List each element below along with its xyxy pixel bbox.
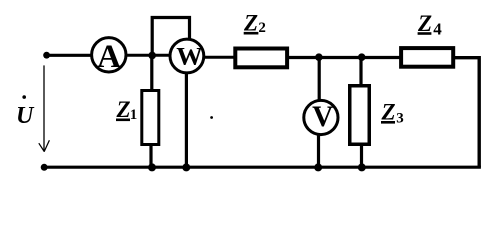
- label Z3: [381, 99, 404, 126]
- label U (phasor): [16, 95, 35, 129]
- wire: wattmeter to Z2: [203, 56, 236, 59]
- svg-text:Z: Z: [381, 99, 396, 124]
- wire: ammeter to wattmeter: [125, 54, 171, 57]
- wire: wattmeter current return to bottom: [185, 73, 188, 167]
- source arrow for U: [39, 65, 50, 151]
- resistor Z3: [350, 86, 370, 145]
- svg-text:V: V: [312, 101, 333, 133]
- wire: Z1 to bottom: [149, 145, 152, 167]
- junction dot W bottom: [182, 163, 190, 171]
- wire: node B down to voltmeter: [318, 58, 321, 101]
- junction dot Z1 bottom: [148, 163, 156, 171]
- node C junction dot (Z3 branch): [358, 53, 366, 61]
- wire: Z4 to right corner and down: [454, 58, 480, 168]
- resistor Z1: [142, 91, 159, 145]
- node: left bottom terminal: [41, 164, 48, 171]
- svg-text:Z: Z: [243, 10, 258, 35]
- svg-text:Z: Z: [116, 97, 131, 122]
- wattmeter U2 W: [170, 39, 204, 73]
- svg-text:3: 3: [396, 111, 404, 127]
- voltmeter U3 V: [304, 100, 338, 134]
- svg-text:W: W: [176, 43, 203, 70]
- wire: bottom return: [44, 166, 481, 169]
- wire: Z3 to bottom: [360, 144, 363, 167]
- svg-text:U: U: [16, 103, 35, 129]
- node B junction dot (voltmeter branch): [315, 53, 323, 61]
- svg-text:2: 2: [258, 20, 266, 36]
- svg-text:1: 1: [130, 107, 138, 123]
- stray dot: [210, 116, 213, 119]
- wire: node A down to Z1: [150, 55, 153, 91]
- wire: node C down to Z3: [359, 58, 362, 87]
- svg-text:A: A: [97, 39, 121, 75]
- wire: terminal to ammeter: [46, 54, 93, 57]
- wire: wattmeter voltage-coil loop: [152, 18, 189, 56]
- label Z4: [417, 11, 442, 38]
- label Z1: [116, 97, 138, 123]
- svg-text:4: 4: [433, 20, 442, 39]
- node: left top terminal: [43, 52, 50, 59]
- junction dot Z3 bottom: [358, 163, 366, 171]
- resistor Z2: [235, 49, 287, 68]
- ammeter U1 A: [92, 38, 126, 76]
- node A junction dot: [148, 52, 156, 60]
- junction dot V bottom: [314, 163, 322, 171]
- wire: Z2 to Z4: [288, 56, 402, 59]
- wire: voltmeter to bottom: [317, 134, 320, 167]
- label Z2: [243, 10, 266, 36]
- resistor Z4: [401, 48, 453, 67]
